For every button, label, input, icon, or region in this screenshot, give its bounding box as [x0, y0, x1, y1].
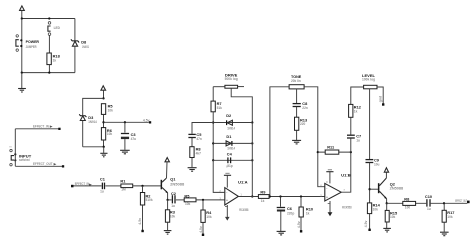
potentiometer TONE: [270, 74, 325, 196]
svg-text:m: m: [9, 144, 12, 148]
potentiometer DRIVE: [213, 72, 252, 122]
ground R15: [383, 228, 391, 232]
diode D1: [213, 134, 252, 150]
node EFFECT_IN jack stub: [15, 124, 60, 130]
svg-text:47u: 47u: [131, 137, 137, 141]
ground R3: [164, 231, 172, 235]
svg-text:LED: LED: [54, 26, 61, 30]
wire power bottom rail: [21, 71, 75, 73]
svg-text:6: 6: [320, 184, 322, 188]
capacitor C5: [188, 123, 213, 147]
svg-text:1u: 1u: [356, 139, 360, 143]
svg-text:7: 7: [343, 188, 345, 192]
svg-text:220p: 220p: [287, 211, 294, 215]
op-amp U1:A: [219, 180, 248, 212]
svg-text:10k: 10k: [107, 132, 113, 136]
svg-text:51k: 51k: [217, 106, 223, 110]
power U1B V- arrow: [328, 201, 333, 216]
node Q1 emitter junction: [166, 199, 168, 201]
svg-text:1N914: 1N914: [88, 120, 97, 124]
resistor R16: [403, 196, 416, 209]
resistor R3: [165, 200, 175, 230]
wire U1B feedback: [318, 151, 352, 192]
capacitor C6: [277, 197, 295, 232]
capacitor C7: [347, 134, 361, 152]
svg-text:4k7: 4k7: [196, 151, 202, 155]
capacitor C3: [121, 122, 137, 150]
wire bias mid node: [102, 114, 148, 127]
resistor R10: [299, 197, 313, 232]
resistor R7: [211, 101, 222, 160]
diode D8: [71, 19, 89, 73]
ground C5 R8: [188, 168, 197, 172]
svg-text:1N914: 1N914: [227, 146, 235, 150]
resistor R9: [258, 189, 302, 203]
svg-text:4.5v: 4.5v: [364, 220, 368, 227]
resistor R5 series: [184, 194, 225, 206]
bias +V symbol: [101, 86, 106, 100]
svg-text:100: 100: [405, 206, 411, 210]
ground bias divider: [100, 147, 107, 157]
svg-text:R1: R1: [120, 179, 126, 184]
svg-text:1: 1: [240, 192, 242, 196]
svg-text:EFFECT_IN: EFFECT_IN: [33, 124, 49, 128]
node EFFECT_IN input terminal: [71, 182, 102, 187]
svg-text:R11: R11: [327, 145, 335, 150]
transistor Q2: [370, 168, 404, 204]
svg-text:1u: 1u: [427, 207, 431, 211]
svg-text:10k: 10k: [390, 215, 396, 219]
resistor R8: [190, 147, 202, 168]
resistor R5: [101, 104, 113, 115]
svg-text:R5: R5: [184, 194, 190, 199]
svg-text:10u: 10u: [374, 163, 380, 167]
node 4.5V terminal: [143, 118, 151, 123]
capacitor C1: [100, 176, 121, 193]
node LEVEL right stub: [379, 96, 385, 106]
svg-text:POWER: POWER: [26, 39, 40, 44]
capacitor C10: [425, 194, 467, 211]
svg-text:-: -: [326, 186, 327, 190]
svg-text:gnd: gnd: [379, 96, 383, 102]
svg-text:-: -: [226, 191, 227, 195]
svg-text:10k: 10k: [108, 108, 114, 112]
capacitor C9: [366, 158, 380, 203]
node feedback left rail junctions: [212, 121, 214, 161]
svg-text:D1: D1: [226, 134, 232, 139]
LED D7: [48, 22, 61, 53]
svg-text:JUMPER: JUMPER: [26, 45, 38, 49]
capacitor C8: [293, 89, 309, 117]
svg-text:EFFECT_OUT: EFFECT_OUT: [33, 162, 53, 166]
resistor R4: [201, 200, 212, 235]
svg-text:1k: 1k: [53, 58, 57, 62]
resistor R17: [442, 203, 454, 232]
svg-text:3: 3: [219, 197, 221, 201]
resistor R13: [295, 117, 308, 140]
ground R17: [440, 232, 449, 236]
svg-text:4.5v: 4.5v: [199, 226, 203, 233]
svg-text:1k: 1k: [354, 110, 358, 114]
transistor Q1: [161, 158, 185, 200]
svg-text:22n: 22n: [302, 106, 308, 110]
node Q2 emitter junction: [386, 202, 427, 204]
svg-text:100k log: 100k log: [362, 77, 375, 81]
svg-text:1u: 1u: [100, 189, 104, 193]
capacitor C4: [213, 151, 252, 168]
ground C3: [120, 150, 130, 154]
svg-text:4.5v: 4.5v: [143, 118, 150, 122]
svg-text:2N5088: 2N5088: [170, 182, 184, 186]
svg-text:C10: C10: [425, 194, 432, 199]
node EFFECT_OUT jack stub: [15, 162, 64, 167]
svg-text:51p: 51p: [227, 164, 233, 168]
ground C6: [277, 231, 286, 235]
node 4.5V R10 stub: [297, 221, 302, 232]
resistor R14: [367, 203, 380, 230]
svg-text:+: +: [326, 196, 328, 200]
ground power: [18, 73, 26, 92]
svg-text:220: 220: [300, 122, 306, 126]
wire U1A inverting input: [213, 160, 225, 192]
svg-text:47n: 47n: [196, 137, 202, 141]
svg-text:R9: R9: [260, 189, 266, 194]
resistor R18: [47, 53, 61, 73]
wire D3 bottom to R6 bottom: [83, 146, 105, 148]
svg-text:EFFECT_IN: EFFECT_IN: [75, 182, 90, 186]
svg-text:D8: D8: [81, 40, 87, 45]
svg-text:1u: 1u: [171, 204, 175, 208]
resistor R15: [385, 203, 398, 228]
svg-text:C4: C4: [227, 151, 233, 156]
node EFFECT_OUT terminal: [455, 199, 469, 203]
svg-text:10k: 10k: [206, 215, 212, 219]
svg-text:switched: switched: [19, 158, 30, 162]
svg-text:20k lin: 20k lin: [291, 79, 301, 83]
resistor R2: [140, 186, 152, 231]
power U1A V+ ground bars: [224, 165, 231, 188]
svg-text:10k: 10k: [447, 215, 453, 219]
svg-text:10k: 10k: [170, 215, 176, 219]
svg-text:5: 5: [320, 193, 322, 197]
svg-text:R8: R8: [404, 196, 410, 201]
svg-text:8: 8: [226, 165, 228, 169]
svg-text:1N4001: 1N4001: [82, 45, 89, 49]
svg-text:510k: 510k: [146, 198, 153, 202]
op-amp U1:B: [320, 172, 351, 209]
node 4.5V R2 stub: [138, 218, 144, 232]
node 4.5V R14 stub: [364, 220, 371, 231]
resistor R11: [325, 145, 339, 155]
diode D2: [213, 113, 252, 130]
svg-text:D2: D2: [226, 113, 232, 118]
svg-text:RC4558: RC4558: [342, 206, 352, 210]
svg-text:2N5088: 2N5088: [390, 187, 404, 191]
wire bias to D3: [83, 98, 104, 115]
zener D3: [79, 114, 97, 147]
svg-text:1M: 1M: [121, 188, 126, 192]
svg-text:1k: 1k: [306, 212, 310, 216]
svg-text:U1:A: U1:A: [238, 180, 248, 185]
svg-text:500k log: 500k log: [225, 77, 238, 81]
wire power top rail: [21, 17, 75, 19]
svg-text:RC4558: RC4558: [239, 208, 248, 212]
svg-text:1N914: 1N914: [227, 126, 235, 130]
jumper J1 POWER: [16, 35, 39, 52]
resistor R6: [101, 128, 112, 147]
jack J2 INPUT: [9, 129, 32, 167]
ground R13: [292, 140, 301, 144]
svg-text:4.5v: 4.5v: [297, 221, 301, 228]
svg-text:+: +: [226, 198, 228, 202]
node 4.5V R4 stub: [199, 226, 204, 236]
svg-text:4.5v: 4.5v: [138, 218, 142, 225]
power U1A V- arrow: [225, 205, 230, 221]
capacitor C2: [168, 191, 185, 208]
svg-text:Q1: Q1: [170, 177, 176, 182]
power U1B V+ ground bars: [326, 170, 334, 184]
svg-text:1k: 1k: [261, 199, 265, 203]
power +V symbol: [20, 6, 25, 19]
svg-text:Q2: Q2: [390, 181, 396, 186]
svg-text:10k: 10k: [373, 208, 379, 212]
svg-text:C1: C1: [100, 176, 106, 181]
svg-text:8: 8: [326, 180, 328, 184]
wire U1A output: [238, 196, 325, 198]
svg-text:10k: 10k: [185, 202, 191, 206]
resistor R1: [120, 179, 160, 192]
svg-text:EFFECT_OUT: EFFECT_OUT: [455, 199, 467, 203]
resistor R12: [349, 104, 362, 134]
potentiometer LEVEL: [351, 73, 383, 159]
svg-text:C2: C2: [171, 191, 177, 196]
wire power left rail: [21, 19, 23, 73]
node feedback right rail junctions: [251, 121, 253, 197]
svg-text:U1:B: U1:B: [341, 172, 351, 177]
